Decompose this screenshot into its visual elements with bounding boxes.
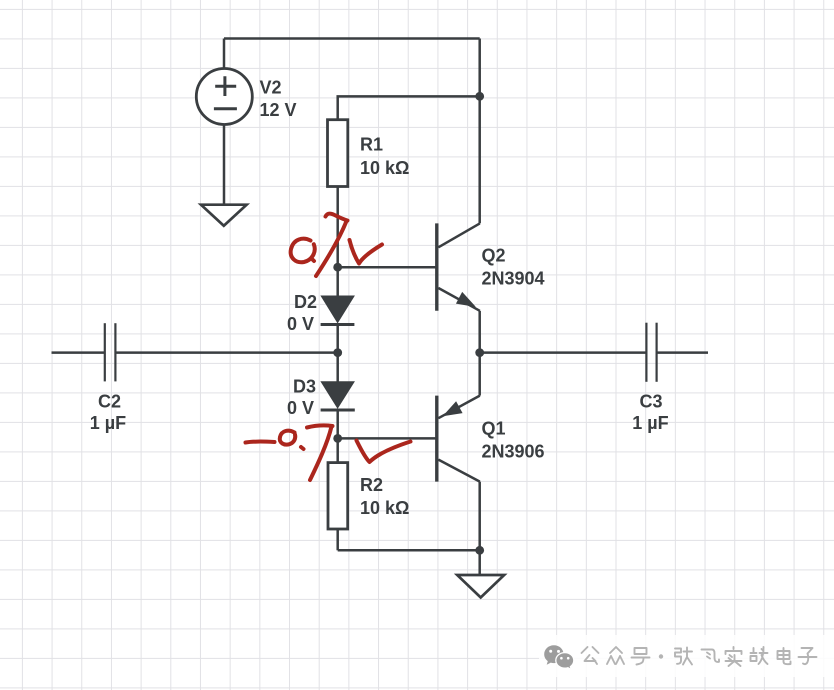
wire right drop from top rail to R1 node bbox=[478, 39, 481, 97]
svg-text:10 kΩ: 10 kΩ bbox=[360, 498, 409, 518]
svg-text:D3: D3 bbox=[293, 376, 316, 396]
wire bottom rail bbox=[338, 549, 480, 552]
svg-text:2N3904: 2N3904 bbox=[482, 269, 545, 289]
watermark wechat icon bbox=[544, 645, 574, 669]
annotation -0.7 handwritten bbox=[246, 426, 411, 481]
wire D2 anode from node A bbox=[336, 267, 339, 297]
svg-text:2N3906: 2N3906 bbox=[482, 442, 545, 462]
diode D2 bbox=[321, 296, 355, 324]
resistor R2 bbox=[328, 463, 348, 529]
node at R1 feed / collector branch bbox=[475, 92, 484, 101]
svg-text:D2: D2 bbox=[294, 292, 317, 312]
wire input segment left bbox=[52, 351, 105, 354]
svg-text:C2: C2 bbox=[98, 391, 121, 411]
node B (bases bottom) bbox=[333, 434, 342, 443]
svg-text:C3: C3 bbox=[639, 392, 662, 412]
svg-text:12 V: 12 V bbox=[260, 100, 297, 120]
transistor Q1 bbox=[437, 396, 480, 482]
svg-text:Q2: Q2 bbox=[482, 245, 506, 265]
svg-text:R2: R2 bbox=[360, 475, 383, 495]
wire Q2 base bbox=[338, 266, 436, 269]
wire R1 bottom to base node bbox=[336, 187, 339, 268]
watermark background bbox=[539, 635, 834, 677]
annotation 0.7v handwritten bbox=[291, 213, 382, 276]
wire Q1 collector down bbox=[478, 482, 481, 551]
wire Q1 emitter up bbox=[478, 353, 481, 396]
wire R2 bottom bbox=[336, 529, 339, 550]
diode D3 bbox=[321, 382, 355, 410]
svg-text:R1: R1 bbox=[360, 135, 383, 155]
svg-text:1 µF: 1 µF bbox=[90, 413, 126, 433]
node A (bases top) bbox=[333, 263, 342, 272]
node ground rail bbox=[475, 546, 484, 555]
wire top rail from V2 to Q2 collector branch bbox=[224, 37, 480, 40]
transistor Q2 bbox=[437, 223, 480, 310]
voltage source V2 bbox=[196, 69, 252, 125]
watermark text bbox=[582, 647, 817, 666]
capacitor C2 bbox=[105, 323, 116, 381]
wire R1 top feed bbox=[338, 96, 480, 119]
svg-text:1 µF: 1 µF bbox=[632, 413, 668, 433]
capacitor C3 bbox=[646, 323, 656, 382]
svg-text:Q1: Q1 bbox=[482, 418, 506, 438]
svg-text:0 V: 0 V bbox=[287, 314, 314, 334]
wire V2 bottom lead bbox=[223, 125, 226, 205]
wire Q2 emitter down bbox=[478, 311, 481, 353]
wire V2 top lead bbox=[223, 39, 226, 69]
wire C2 to mid node bbox=[115, 351, 337, 354]
wire Q2 collector up bbox=[478, 96, 481, 223]
node output (emitters) bbox=[475, 348, 484, 357]
svg-text:V2: V2 bbox=[260, 78, 282, 98]
wire node B to R2 bbox=[336, 438, 339, 462]
wire D3 anode from mid node bbox=[336, 353, 339, 383]
node mid (between D2 and D3) bbox=[333, 348, 342, 357]
wire C3 right stub bbox=[657, 351, 708, 354]
svg-text:10 kΩ: 10 kΩ bbox=[360, 158, 409, 178]
svg-text:0 V: 0 V bbox=[287, 398, 314, 418]
wire output to C3 bbox=[480, 351, 647, 354]
wire Q1 base bbox=[338, 437, 436, 440]
wire D2 cathode to mid node bbox=[336, 325, 339, 353]
ground bottom bbox=[457, 575, 504, 598]
resistor R1 bbox=[328, 120, 348, 187]
wire D3 cathode to node B bbox=[336, 410, 339, 438]
ground under V2 bbox=[201, 205, 247, 226]
wire ground lead bbox=[478, 550, 481, 575]
